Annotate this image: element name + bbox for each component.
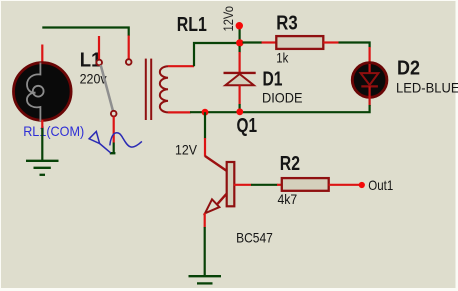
node junction relay bottom	[202, 109, 209, 116]
svg-text:12V: 12V	[175, 141, 198, 157]
svg-text:RL1: RL1	[177, 14, 207, 36]
led D2	[352, 63, 387, 106]
wire switch pole down	[110, 117, 116, 154]
wire lamp top to switch contact	[42, 28, 128, 60]
wire lamp bottom to ground	[41, 120, 43, 129]
wire LED bottom to node rail	[207, 105, 370, 112]
node junction diode bottom	[236, 108, 243, 115]
svg-text:D1: D1	[263, 69, 283, 91]
svg-text:1k: 1k	[276, 50, 289, 66]
AC sine wave (blue)	[110, 133, 142, 147]
svg-text:DIODE: DIODE	[262, 90, 303, 106]
wire base to R2	[251, 184, 278, 186]
wire node to R3	[243, 41, 263, 43]
wire relay bottom to node	[190, 111, 207, 113]
wire node to collector	[204, 112, 206, 156]
svg-text:BC547: BC547	[236, 230, 273, 246]
wire R3 to LED	[323, 43, 369, 64]
svg-text:R2: R2	[280, 153, 300, 175]
terminal Out1	[359, 177, 394, 193]
svg-text:Out1: Out1	[368, 177, 393, 193]
wire relay top to 12V node	[194, 43, 237, 66]
actuator arrow (blue)	[89, 132, 111, 153]
resistor R2	[277, 178, 359, 191]
relay RL1 coil	[146, 59, 194, 120]
power terminal 12Vo	[220, 6, 243, 43]
transistor Q1	[205, 156, 252, 228]
resistor R3	[276, 36, 323, 49]
svg-text:4k7: 4k7	[278, 191, 298, 207]
diode D1	[224, 46, 256, 112]
lamp L1	[14, 45, 72, 122]
svg-text:12Vo: 12Vo	[220, 6, 236, 32]
svg-text:R3: R3	[276, 13, 297, 35]
svg-text:D2: D2	[397, 57, 420, 79]
svg-text:LED-BLUE: LED-BLUE	[396, 79, 458, 95]
switch RL1 contact	[96, 36, 131, 116]
svg-text:RL1(COM): RL1(COM)	[23, 123, 84, 139]
ground bottom	[189, 276, 222, 283]
ground under lamp	[26, 161, 59, 175]
node junction 12V rail	[236, 39, 243, 46]
svg-text:Q1: Q1	[237, 115, 258, 137]
wire emitter to ground	[204, 227, 206, 276]
